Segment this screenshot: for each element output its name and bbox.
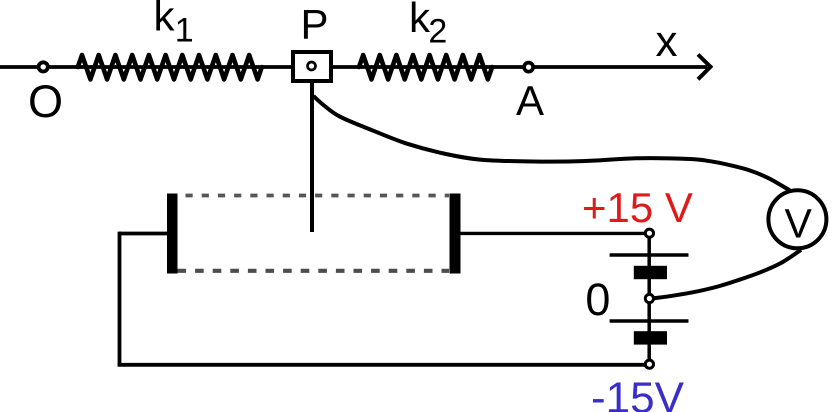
potentiometer dashed track bottom bbox=[178, 269, 450, 273]
x axis arrowhead bbox=[698, 55, 711, 80]
battery cell 1 long plate bbox=[610, 253, 689, 257]
svg-text:O: O bbox=[28, 76, 63, 127]
wire: right electrode to +15V node bbox=[461, 232, 646, 235]
potentiometer dashed track top bbox=[186, 194, 450, 198]
wire: left electrode to left vertical bbox=[119, 232, 167, 236]
wire: flexible lead from wiper P to voltmeter bbox=[314, 96, 791, 191]
node O (open circle) bbox=[39, 62, 48, 71]
node +15V terminal bbox=[645, 229, 653, 237]
pivot circle inside P bbox=[308, 62, 316, 70]
node A (open circle) bbox=[524, 63, 533, 72]
wire: x axis line from left edge to arrow bbox=[0, 65, 707, 69]
potentiometer right electrode bbox=[450, 194, 461, 274]
node 0 terminal bbox=[645, 294, 653, 302]
label k2 bbox=[409, 0, 447, 51]
svg-text:P: P bbox=[301, 1, 329, 48]
label k1 bbox=[154, 0, 194, 50]
svg-text:+15 V: +15 V bbox=[582, 184, 693, 231]
svg-text:V: V bbox=[785, 200, 813, 246]
battery cell 2 short thick plate bbox=[634, 331, 667, 344]
battery cell 1 short thick plate bbox=[634, 266, 667, 279]
svg-text:2: 2 bbox=[428, 13, 447, 51]
battery cell 2 long plate bbox=[610, 319, 689, 323]
svg-text:-15V: -15V bbox=[591, 374, 685, 412]
svg-text:x: x bbox=[656, 17, 678, 66]
svg-text:A: A bbox=[516, 77, 544, 124]
svg-text:1: 1 bbox=[175, 12, 194, 50]
wire: flexible lead from 0 node to voltmeter bbox=[652, 250, 801, 299]
mass P (box) bbox=[293, 52, 331, 81]
wire: wiper rod from P down to potentiometer bbox=[310, 81, 314, 232]
wire: left vertical down bbox=[118, 232, 122, 367]
node -15V terminal bbox=[645, 360, 653, 368]
spring k2 bbox=[359, 55, 492, 79]
potentiometer left electrode bbox=[167, 194, 178, 274]
battery vertical wire bbox=[647, 233, 651, 364]
voltmeter V bbox=[768, 190, 826, 248]
svg-text:k: k bbox=[154, 0, 176, 40]
spring k1 bbox=[78, 55, 262, 79]
wire: bottom horizontal to battery minus node bbox=[118, 363, 645, 367]
svg-text:0: 0 bbox=[585, 274, 610, 325]
